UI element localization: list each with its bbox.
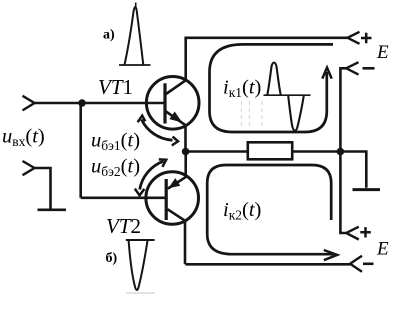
u_be1 arrowhead up bbox=[138, 116, 146, 123]
u_be1 arrowhead right bbox=[172, 137, 178, 146]
ground wire bbox=[340, 152, 366, 188]
waveform i_k1 negative pulse bbox=[288, 96, 304, 131]
input terminal arrow 1 bbox=[23, 96, 35, 111]
u_be2 curved arrow arc bbox=[140, 161, 164, 189]
current loop i_k2 bbox=[207, 165, 333, 254]
wire to VT2 base bbox=[81, 197, 166, 200]
resistor R load bbox=[248, 142, 292, 159]
wire emitter junction rail bbox=[186, 150, 341, 153]
wire bottom (VT2 collector to -E) bbox=[185, 263, 350, 266]
svg-text:VT1: VT1 bbox=[98, 75, 133, 99]
u_be2 arrowhead upright bbox=[159, 159, 166, 167]
wire input upper (to VT1 base) bbox=[34, 102, 164, 105]
label minus top bbox=[363, 67, 375, 70]
terminal arrow -E bottom bbox=[350, 256, 362, 272]
label minus bottom bbox=[363, 262, 374, 265]
node right rail junction bbox=[337, 148, 345, 156]
svg-text:а): а) bbox=[103, 28, 115, 43]
svg-text:VT2: VT2 bbox=[106, 214, 141, 238]
svg-text:E: E bbox=[376, 42, 389, 63]
current loop i_k1 bbox=[210, 44, 334, 132]
svg-text:uбэ1(t): uбэ1(t) bbox=[91, 130, 140, 154]
transistor VT1 emitter arrow bbox=[169, 112, 182, 123]
input terminal arrow 2 bbox=[23, 161, 35, 175]
waveform b) pulse bbox=[129, 241, 148, 291]
current loop i_k1 arrowhead bbox=[322, 68, 331, 79]
wire -E top to bottom rail bbox=[340, 68, 346, 233]
ground bar bbox=[353, 188, 381, 191]
waveform a) baseline bbox=[119, 64, 151, 66]
waveform i_k1 baseline bbox=[264, 94, 311, 96]
ghost artifact under b) pulse bbox=[126, 292, 155, 294]
label plus top bbox=[361, 33, 372, 43]
svg-text:uбэ2(t): uбэ2(t) bbox=[91, 156, 140, 180]
transistor VT2 body bbox=[146, 172, 199, 225]
wire collector top bbox=[184, 36, 347, 39]
waveform a) peak tick bbox=[135, 3, 137, 9]
terminal arrow +E top bbox=[348, 32, 360, 44]
label plus bottom bbox=[360, 227, 371, 237]
u_be2 arrowhead down bbox=[135, 189, 145, 196]
waveform i_k1 positive pulse bbox=[267, 63, 280, 96]
u_be1 curved arrow arc bbox=[142, 120, 173, 141]
transistor VT1 body bbox=[146, 77, 199, 130]
node emitter junction bbox=[182, 148, 190, 156]
node input junction bbox=[78, 99, 86, 107]
transistor VT2 emitter line bbox=[168, 152, 186, 189]
transistor VT1 emitter line bbox=[166, 112, 186, 152]
svg-text:iк2(t): iк2(t) bbox=[223, 199, 261, 223]
transistor VT2 base bar bbox=[165, 179, 168, 220]
svg-text:E: E bbox=[376, 239, 389, 260]
waveform a) pulse bbox=[125, 7, 144, 65]
lower input end bar bbox=[38, 209, 67, 212]
transistor VT1 base bar bbox=[163, 83, 166, 123]
current loop i_k2 arrowhead bbox=[324, 250, 337, 260]
waveform b) baseline bbox=[126, 239, 155, 241]
terminal arrow -E top bbox=[346, 62, 358, 74]
transistor VT1 collector line bbox=[166, 38, 186, 94]
ghost artifact dashes under i_k1 label bbox=[242, 101, 263, 127]
wire lower input stub bbox=[34, 168, 51, 210]
transistor VT2 collector line bbox=[167, 209, 185, 264]
terminal arrow +E bottom bbox=[346, 227, 359, 240]
svg-text:б): б) bbox=[106, 251, 118, 266]
wire left vertical bbox=[79, 103, 82, 198]
svg-text:uвх(t): uвх(t) bbox=[2, 126, 45, 150]
svg-text:iк1(t): iк1(t) bbox=[223, 77, 261, 101]
transistor VT2 emitter arrow bbox=[168, 178, 180, 188]
